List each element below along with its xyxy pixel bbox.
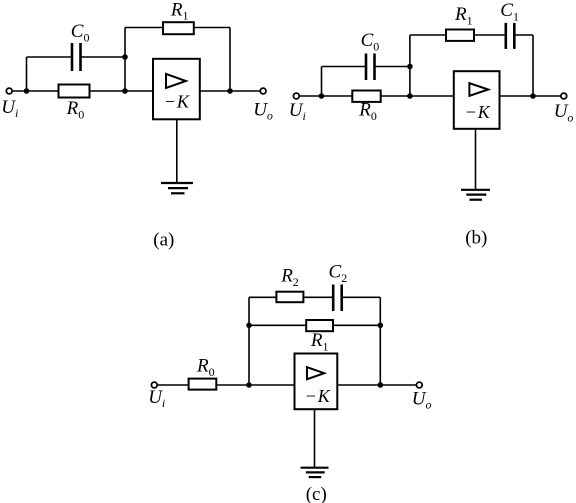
- svg-text:Ui: Ui: [1, 97, 18, 120]
- wire R1 right (a): [194, 27, 230, 29]
- op-amp triangle (a): [166, 74, 186, 88]
- node B junction dot (a): [122, 54, 128, 60]
- wire amp to ground (b): [475, 129, 477, 190]
- wire C1 right (b): [516, 34, 534, 36]
- svg-text:R1: R1: [454, 4, 473, 27]
- svg-text:R0: R0: [196, 356, 215, 379]
- resistor R0 (a): [59, 85, 90, 98]
- svg-text:R2: R2: [280, 265, 299, 288]
- svg-text:R1: R1: [170, 0, 189, 23]
- op-amp triangle (c): [307, 367, 324, 379]
- wire to R2 left (c): [249, 296, 276, 298]
- ground (c): [301, 468, 329, 477]
- node C junction dot (a): [122, 88, 128, 94]
- node C junction dot (b): [407, 93, 413, 99]
- node A junction dot (c): [246, 382, 252, 388]
- wire feedback down to output (b): [532, 35, 534, 96]
- node C junction dot (c): [378, 323, 384, 329]
- wire amp output (b): [500, 95, 561, 97]
- node D junction dot (c): [378, 382, 384, 388]
- wire C2 right (c): [343, 296, 380, 298]
- svg-text:Uo: Uo: [554, 101, 574, 124]
- svg-text:C0: C0: [361, 30, 380, 53]
- resistor R1 (c): [306, 320, 333, 331]
- wire C0 right to node B (b): [376, 66, 410, 68]
- wire R0 to amp input (c): [216, 384, 294, 386]
- svg-text:−K: −K: [306, 386, 331, 406]
- wire input to node A (a): [12, 90, 58, 92]
- wire node B vertical (b): [409, 35, 411, 96]
- resistor R2 (c): [276, 292, 303, 303]
- wire to C0 left (a): [27, 56, 72, 58]
- wire node A up (b): [321, 67, 323, 97]
- input terminal Ui (c): [151, 382, 157, 388]
- wire to C0 left (b): [322, 66, 366, 68]
- wire feedback down to output (a): [229, 28, 231, 92]
- ground (b): [461, 190, 490, 200]
- ground (a): [161, 183, 193, 193]
- input terminal Ui (b): [293, 93, 299, 99]
- wire R2 to C2 (c): [303, 296, 332, 298]
- svg-text:R1: R1: [310, 330, 329, 353]
- svg-text:C1: C1: [500, 0, 519, 23]
- capacitor C0 (b): [366, 54, 375, 81]
- svg-text:C0: C0: [71, 21, 90, 44]
- node A junction dot (b): [319, 93, 325, 99]
- svg-text:R0: R0: [66, 98, 85, 121]
- wire right feedback vertical (c): [379, 297, 381, 385]
- node B junction dot (c): [246, 323, 252, 329]
- wire node B vertical (a): [124, 28, 126, 92]
- svg-text:Ui: Ui: [289, 100, 306, 123]
- op-amp U1 box (a): [153, 59, 200, 120]
- wire to R1 left (b): [410, 34, 445, 36]
- resistor R0 (b): [352, 91, 380, 102]
- node D junction dot (b): [530, 93, 536, 99]
- wire amp output (c): [337, 384, 416, 386]
- wire R1 row right (c): [334, 324, 381, 326]
- wire R0 right to amp input (a): [90, 90, 154, 92]
- output terminal Uo (b): [561, 93, 567, 99]
- svg-text:Uo: Uo: [253, 99, 273, 122]
- wire R1 row left (c): [249, 324, 306, 326]
- svg-text:(c): (c): [306, 484, 327, 503]
- op-amp U3 box (c): [295, 354, 338, 410]
- svg-text:Ui: Ui: [148, 387, 165, 410]
- svg-text:−K: −K: [466, 102, 491, 122]
- capacitor C0 (a): [72, 43, 81, 71]
- wire C0 right to node B (a): [82, 56, 126, 58]
- resistor R1 (a): [163, 22, 194, 34]
- capacitor C1 (b): [506, 23, 515, 49]
- input terminal Ui (a): [6, 88, 12, 94]
- node A junction dot (a): [24, 88, 30, 94]
- svg-text:(b): (b): [465, 227, 487, 248]
- wire R1 to C1 (b): [474, 34, 505, 36]
- wire R0 right to amp input (b): [381, 95, 454, 97]
- wire amp to ground (a): [176, 119, 178, 183]
- op-amp triangle (b): [469, 83, 488, 96]
- svg-text:(a): (a): [153, 229, 174, 250]
- wire input to R0 (c): [157, 384, 188, 386]
- node D junction dot (a): [227, 88, 233, 94]
- wire to R1 left (a): [125, 27, 163, 29]
- svg-text:Uo: Uo: [412, 388, 432, 411]
- wire input to node A (b): [299, 95, 352, 97]
- resistor R1 (b): [446, 30, 474, 41]
- wire node A vertical (c): [248, 297, 250, 385]
- op-amp U2 box (b): [454, 71, 500, 129]
- svg-text:−K: −K: [165, 92, 190, 112]
- svg-text:R0: R0: [358, 100, 377, 123]
- wire node A up (a): [26, 57, 28, 91]
- capacitor C2 (c): [333, 285, 342, 312]
- svg-text:C2: C2: [329, 262, 348, 285]
- output terminal Uo (a): [260, 88, 266, 94]
- wire amp output (a): [200, 90, 260, 92]
- output terminal Uo (c): [416, 382, 422, 388]
- resistor R0 (c): [189, 379, 217, 390]
- wire amp to ground (c): [314, 409, 316, 468]
- node B junction dot (b): [407, 64, 413, 70]
